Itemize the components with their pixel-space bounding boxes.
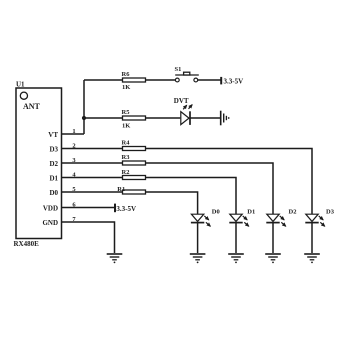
ground (D0) <box>190 254 206 263</box>
svg-text:D3: D3 <box>326 209 335 216</box>
svg-text:R1: R1 <box>117 186 125 193</box>
svg-text:R2: R2 <box>122 169 130 176</box>
svg-text:D1: D1 <box>49 174 58 182</box>
ground (D1) <box>228 254 244 263</box>
ground (right of DVT, horizontal) <box>221 111 230 126</box>
wire D0 row <box>62 192 198 214</box>
pin label D2 <box>49 160 58 168</box>
pin label GND <box>42 219 58 227</box>
wire DVT cathode to ground <box>190 117 220 119</box>
value 1K of R5 <box>122 123 130 130</box>
ground (GND pin) <box>107 254 123 263</box>
wire D3 LED to ground <box>311 223 313 253</box>
ANT pin circle <box>20 92 27 99</box>
LED D0 <box>191 214 211 226</box>
pin label VDD <box>43 205 58 213</box>
resistor R6 <box>123 78 146 82</box>
resistor R1 <box>123 190 146 194</box>
value 1K of R6 <box>122 84 130 91</box>
wire D2 LED to ground <box>272 223 274 253</box>
label R1 <box>117 186 125 193</box>
pin number 7 <box>72 216 76 223</box>
label S1 <box>175 66 182 73</box>
LED D1 <box>229 214 249 226</box>
junction VT node <box>82 116 86 120</box>
ANT label <box>23 102 41 111</box>
power supply 3.3-5V (top) <box>220 77 222 85</box>
IC U1 box <box>16 88 62 239</box>
resistor R4 <box>123 147 146 151</box>
ground (D3) <box>304 254 320 263</box>
svg-text:D3: D3 <box>49 145 58 153</box>
pin number 1 <box>72 128 75 135</box>
pin label D0 <box>49 189 58 197</box>
label D3 <box>326 209 335 216</box>
wire D2 row <box>62 163 274 214</box>
RX480E part label <box>14 240 40 248</box>
svg-text:D1: D1 <box>247 209 255 216</box>
label R6 <box>122 71 131 78</box>
svg-text:3.3-5V: 3.3-5V <box>224 78 244 86</box>
label R4 <box>122 140 131 147</box>
svg-text:ANT: ANT <box>23 102 41 111</box>
power supply 3.3-5V (VDD) <box>114 204 116 213</box>
LED DVT <box>181 105 192 125</box>
svg-text:1K: 1K <box>122 84 130 91</box>
svg-text:RX480E: RX480E <box>14 240 40 248</box>
pin number 4 <box>72 172 76 179</box>
wire D3 row <box>62 149 313 215</box>
LED D2 <box>266 214 286 226</box>
svg-text:GND: GND <box>42 219 58 227</box>
wire VDD row <box>62 207 115 209</box>
label R3 <box>122 154 131 161</box>
svg-text:D0: D0 <box>212 209 220 216</box>
LED D3 <box>305 214 325 226</box>
svg-text:1K: 1K <box>122 123 130 130</box>
label R2 <box>122 169 130 176</box>
wire GND row <box>62 222 115 253</box>
label R5 <box>122 109 131 116</box>
svg-text:D2: D2 <box>49 160 58 168</box>
pin number 2 <box>72 143 75 150</box>
pin label D3 <box>49 145 58 153</box>
label 3.3-5V (VDD) <box>116 205 136 213</box>
wire D1 row <box>62 178 237 215</box>
svg-text:3.3-5V: 3.3-5V <box>116 205 136 213</box>
svg-text:R5: R5 <box>122 109 131 116</box>
label D1 <box>247 209 255 216</box>
svg-text:D2: D2 <box>289 209 297 216</box>
wire VT pin to vertical riser <box>62 133 85 135</box>
pin number 6 <box>72 202 76 209</box>
svg-text:R4: R4 <box>122 140 131 147</box>
resistor R5 <box>123 116 146 120</box>
pin label VT <box>48 131 58 139</box>
svg-text:DVT: DVT <box>174 97 189 105</box>
wire vertical riser VT node <box>83 80 85 134</box>
wire D1 LED to ground <box>235 223 237 253</box>
svg-text:VT: VT <box>48 131 58 139</box>
label 3.3-5V (top) <box>224 78 244 86</box>
pin number 5 <box>72 186 76 193</box>
label DVT <box>174 97 189 105</box>
pin label D1 <box>49 174 58 182</box>
switch S1 <box>175 72 199 82</box>
svg-text:D0: D0 <box>49 189 58 197</box>
U1 reference label <box>16 81 25 89</box>
pin number 3 <box>72 157 76 164</box>
wire D0 LED to ground <box>197 223 199 253</box>
wire S1 to supply <box>198 79 221 81</box>
svg-text:U1: U1 <box>16 81 25 89</box>
label D2 <box>289 209 297 216</box>
ground (D2) <box>265 254 281 263</box>
svg-text:S1: S1 <box>175 66 182 73</box>
wire R5 row left <box>84 117 180 119</box>
svg-text:VDD: VDD <box>43 205 58 213</box>
svg-text:R3: R3 <box>122 154 131 161</box>
resistor R3 <box>123 161 146 165</box>
wire R6 row left <box>84 79 175 81</box>
resistor R2 <box>123 176 146 180</box>
label D0 <box>212 209 220 216</box>
svg-text:R6: R6 <box>122 71 131 78</box>
